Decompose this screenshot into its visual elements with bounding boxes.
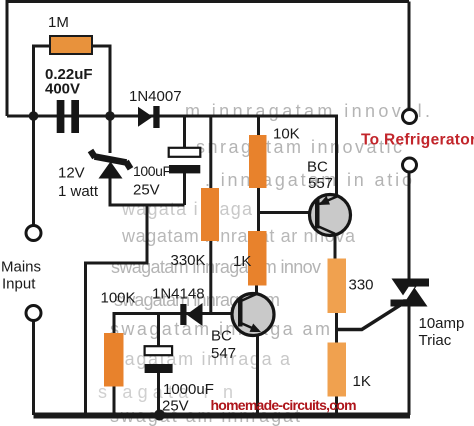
svg-text:Triac: Triac <box>419 332 452 349</box>
svg-text:12V: 12V <box>58 165 85 182</box>
capacitor C3 1000uF 25V <box>145 346 173 355</box>
node junction at C1 left <box>29 111 39 121</box>
resistor 1K upper <box>248 231 267 286</box>
svg-text:BC: BC <box>211 328 232 345</box>
resistor 1K lower <box>328 343 347 397</box>
svg-text:1N4148: 1N4148 <box>152 286 205 303</box>
svg-text:547: 547 <box>211 345 236 362</box>
svg-text:Mains: Mains <box>1 259 41 276</box>
svg-text:1K: 1K <box>233 253 251 270</box>
wire 10K to 1K <box>257 188 260 231</box>
svg-text:1000uF: 1000uF <box>163 381 214 398</box>
svg-text:400V: 400V <box>45 81 80 98</box>
wire 1M loop left <box>34 46 51 116</box>
svg-text:330K: 330K <box>171 252 206 269</box>
wire BC557 base <box>259 211 311 214</box>
wire BC547 emitter lead <box>256 336 259 416</box>
node junction at 1000uF ground <box>154 410 165 421</box>
wire right rail mid <box>408 172 411 279</box>
wire right rail lower <box>408 306 411 416</box>
capacitor 0.22uF 400V <box>57 100 79 133</box>
transistor Q2 BC547 <box>232 294 274 336</box>
svg-text:1N4007: 1N4007 <box>129 88 182 105</box>
resistor 10K <box>249 135 267 188</box>
wire main dc rail <box>7 115 338 118</box>
wire mains lower lead <box>32 321 35 416</box>
resistor R1 1M <box>50 36 92 54</box>
wire 100uF bottom lead <box>183 173 186 205</box>
triac T1 <box>391 279 430 307</box>
wire 330K top lead <box>209 116 212 188</box>
svg-text:To Refrigerator: To Refrigerator <box>361 132 474 149</box>
capacitor C2 100uF 25V <box>169 148 201 157</box>
wire 330K bottom lead <box>209 241 212 314</box>
svg-text:1M: 1M <box>48 14 69 31</box>
wire 330 bottom lead <box>335 313 338 330</box>
diode D2 1N4148 <box>180 303 202 326</box>
diode D1 1N4007 <box>138 106 160 128</box>
wire 1K lower top lead <box>335 330 338 343</box>
svg-text:swagatam innragatam innov: swagatam innragatam innov <box>111 257 321 277</box>
wire BC557 emitter lead <box>335 116 338 196</box>
wire bottom rail <box>34 413 411 419</box>
svg-text:10K: 10K <box>273 126 300 143</box>
wire 1M loop right <box>92 46 110 116</box>
svg-text:wagata i rraga: wagata i rraga <box>121 199 253 219</box>
svg-text:1 watt: 1 watt <box>58 183 99 200</box>
wire zener top lead <box>109 116 112 153</box>
zener diode Z1 12V 1watt <box>91 151 131 169</box>
svg-text:557: 557 <box>308 175 333 192</box>
svg-text:25V: 25V <box>133 182 160 199</box>
transistor Q1 BC557 <box>310 195 351 236</box>
wire 100uF top lead <box>183 116 186 148</box>
terminal mains upper <box>26 226 41 241</box>
wire 100K bottom lead <box>113 387 116 416</box>
svg-text:1K: 1K <box>353 373 371 390</box>
svg-text:Input: Input <box>2 276 36 293</box>
svg-text:25V: 25V <box>162 398 189 415</box>
terminal mains lower <box>26 306 41 321</box>
wire right rail upper <box>408 2 411 110</box>
svg-text:100uF: 100uF <box>133 163 171 179</box>
wire BC547 collector lead <box>255 286 258 296</box>
svg-text:330: 330 <box>349 277 374 294</box>
resistor 330 <box>328 259 347 314</box>
wire zener bottom to cap bottom <box>110 178 185 206</box>
terminal refrigerator lower <box>403 158 417 172</box>
wire left border <box>6 0 9 116</box>
svg-text:homemade-circuits,com: homemade-circuits,com <box>211 397 357 413</box>
wire top rail <box>7 0 409 3</box>
svg-text:10amp: 10amp <box>419 315 465 332</box>
wire 1000uF bottom lead <box>157 373 160 415</box>
resistor 330K <box>201 188 219 241</box>
node junction at C1 right <box>105 111 115 121</box>
resistor 100K <box>104 333 124 387</box>
wire 1K lower bottom lead <box>335 397 338 416</box>
wire BC557 collector lead <box>334 234 337 259</box>
wire negative jog <box>86 205 148 415</box>
svg-text:BC: BC <box>307 159 328 176</box>
svg-text:100K: 100K <box>101 290 136 307</box>
wire 10K top lead <box>257 116 260 135</box>
wire mains upper lead <box>32 116 35 226</box>
wire 1000uF top lead <box>157 314 160 347</box>
wire triac gate <box>337 304 403 330</box>
terminal refrigerator upper <box>403 110 417 124</box>
svg-text:m innragatam innoval.: m innragatam innoval. <box>185 101 430 121</box>
wire base rail BC547 <box>114 314 232 334</box>
